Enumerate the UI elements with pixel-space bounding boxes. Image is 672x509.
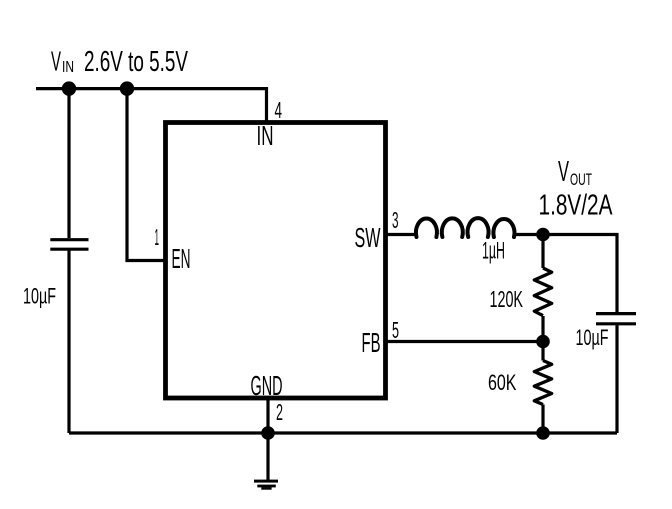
svg-text:2: 2 — [276, 399, 283, 425]
svg-text:120K: 120K — [490, 286, 524, 312]
svg-text:2.6V to 5.5V: 2.6V to 5.5V — [84, 46, 188, 78]
svg-text:1.8V/2A: 1.8V/2A — [539, 190, 613, 222]
svg-text:5: 5 — [392, 317, 399, 343]
svg-text:GND: GND — [251, 370, 283, 401]
svg-text:1µH: 1µH — [482, 238, 505, 265]
svg-text:1: 1 — [155, 224, 160, 250]
svg-text:IN: IN — [62, 59, 74, 76]
svg-text:FB: FB — [362, 327, 381, 358]
svg-text:SW: SW — [355, 222, 381, 253]
svg-text:V: V — [51, 46, 61, 77]
svg-text:3: 3 — [392, 207, 399, 233]
svg-text:4: 4 — [275, 97, 283, 123]
svg-text:60K: 60K — [488, 370, 517, 395]
svg-text:EN: EN — [172, 243, 191, 274]
svg-text:OUT: OUT — [570, 170, 592, 189]
svg-text:V: V — [558, 156, 569, 188]
svg-text:10µF: 10µF — [576, 325, 609, 350]
svg-text:10µF: 10µF — [23, 284, 56, 309]
svg-text:IN: IN — [257, 120, 274, 151]
